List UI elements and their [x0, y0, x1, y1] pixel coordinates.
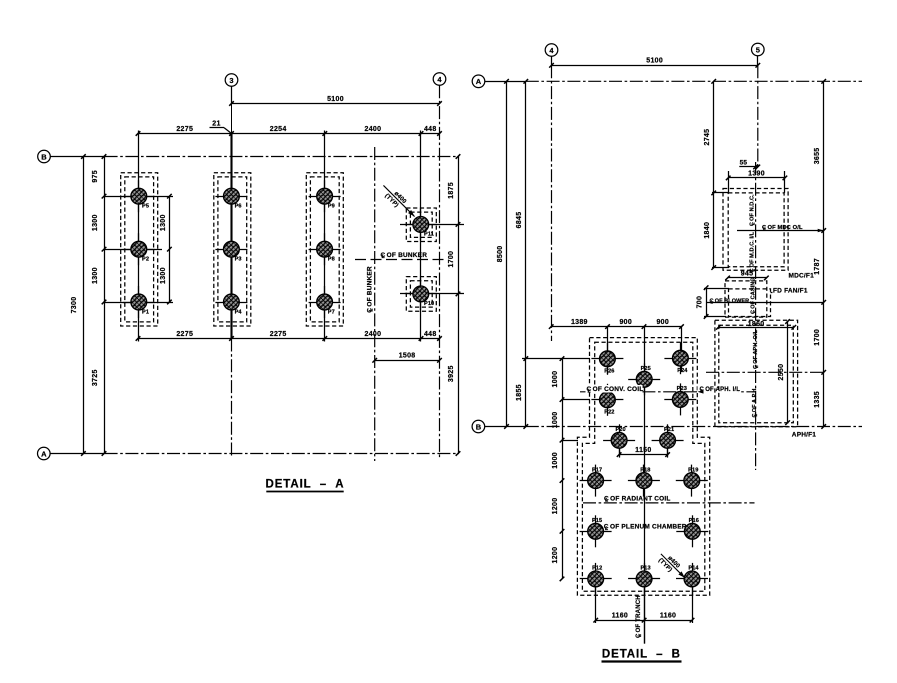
grid line A (detail B): [485, 81, 526, 83]
label CL OF CASING (vertical): [751, 277, 757, 314]
FD fan pedestal rect 2: [729, 289, 771, 317]
svg-text:1700: 1700: [448, 251, 455, 268]
pile P20: [603, 440, 635, 442]
svg-text:P22: P22: [604, 410, 614, 416]
dim chain 6845/1855: [525, 81, 527, 426]
APH pedestal outer: [715, 320, 798, 427]
svg-text:P2: P2: [142, 257, 149, 263]
svg-text:5100: 5100: [646, 58, 663, 65]
svg-text:P19: P19: [688, 467, 698, 473]
pile cap P10 outer: [406, 277, 436, 312]
svg-text:900: 900: [656, 319, 669, 326]
row line P26 extension: [522, 358, 590, 360]
dim 2550 (APH height): [787, 322, 789, 423]
svg-text:OF APH. O/L: OF APH. O/L: [753, 329, 759, 363]
svg-text:P11: P11: [424, 232, 434, 238]
column line P26: [607, 327, 609, 374]
pile P7: [309, 302, 341, 304]
svg-text:3725: 3725: [92, 369, 99, 386]
svg-text:OF A.P.H.: OF A.P.H.: [752, 387, 758, 413]
svg-text:2275: 2275: [176, 331, 193, 338]
column line 3 (detail A): [324, 131, 326, 342]
svg-text:P14: P14: [688, 566, 699, 572]
svg-text:2400: 2400: [365, 126, 382, 133]
dim chain 3655/1787/1700/1335 (far right): [823, 81, 825, 426]
grid line 3: [231, 86, 233, 104]
svg-text:OF CASING: OF CASING: [751, 277, 757, 308]
svg-text:OF BUNKER: OF BUNKER: [387, 252, 428, 259]
pile P15: [580, 531, 612, 533]
grid line 5 (detail B): [757, 56, 759, 66]
grid line 4 (detail A): [439, 85, 441, 459]
svg-text:OF MDC O/L: OF MDC O/L: [768, 225, 803, 231]
svg-text:P3: P3: [235, 257, 242, 263]
svg-text:P12: P12: [592, 566, 602, 572]
svg-text:8500: 8500: [497, 246, 504, 263]
row line P20 extension: [562, 440, 578, 442]
label FD FAN/F1: [771, 292, 773, 294]
svg-text:55: 55: [740, 159, 748, 166]
svg-text:1160: 1160: [612, 613, 628, 620]
note dia400 TYP (detail B): [655, 550, 689, 584]
svg-text:P5: P5: [142, 204, 149, 210]
grid line A (detail A): [50, 453, 105, 455]
FD fan pedestal rect 1: [725, 281, 767, 317]
section line 21 (thick): [230, 134, 232, 339]
svg-text:B: B: [41, 152, 47, 161]
svg-text:1000: 1000: [552, 412, 559, 429]
pile P17: [580, 480, 612, 482]
svg-text:P10: P10: [424, 301, 434, 307]
label CL OF N.D.C. (vertical): [750, 194, 756, 226]
pile P12: [580, 578, 612, 580]
dim 5100 (detail A top): [232, 103, 440, 105]
svg-text:7300: 7300: [71, 297, 78, 314]
grid bubble A (detail A): [38, 447, 51, 460]
MDC pedestal inner: [728, 193, 784, 267]
svg-text:P15: P15: [592, 518, 602, 524]
svg-text:DETAIL – B: DETAIL – B: [602, 649, 681, 661]
svg-text:5100: 5100: [327, 96, 344, 103]
svg-text:P21: P21: [664, 427, 674, 433]
column line 1 (detail A): [138, 131, 140, 342]
svg-text:P17: P17: [592, 467, 602, 473]
dim 5100 (detail B): [552, 65, 758, 67]
svg-text:A: A: [41, 449, 47, 458]
svg-text:P8: P8: [328, 257, 335, 263]
dim chain 975/1300/1300/3725: [104, 157, 106, 454]
grid bubble 5 (detail B): [752, 43, 765, 56]
dim chain 8500: [506, 81, 508, 426]
svg-text:1390: 1390: [748, 170, 765, 177]
svg-text:1508: 1508: [399, 353, 416, 360]
svg-text:OF M.D.C. I/L: OF M.D.C. I/L: [750, 231, 756, 267]
label CL OF APH. O/L (vertical): [753, 329, 759, 369]
bunker centerline (vertical): [374, 147, 376, 461]
row line 196: [104, 196, 173, 198]
row line P10: [400, 293, 464, 295]
svg-text:A: A: [476, 77, 482, 86]
grid bubble 4 (detail A): [433, 73, 446, 86]
svg-text:1335: 1335: [814, 391, 821, 408]
dim row 2275/2254/2400/448 (top): [138, 133, 440, 135]
svg-text:1860: 1860: [748, 321, 765, 328]
svg-text:2745: 2745: [704, 129, 711, 146]
pile P9: [309, 196, 341, 198]
svg-text:OF BUNKER: OF BUNKER: [367, 266, 374, 307]
svg-text:1855: 1855: [516, 384, 523, 401]
svg-text:P1: P1: [142, 309, 149, 315]
row line P11: [400, 224, 464, 226]
svg-text:B: B: [476, 422, 482, 431]
equipment centerline (MDC/APH): [755, 162, 757, 470]
dim chain 1875/1700/3925 (right): [458, 157, 460, 454]
column line P10/P11: [420, 131, 422, 342]
pile P11: [405, 224, 437, 226]
pile P18: [628, 480, 660, 482]
pile P3: [215, 249, 247, 251]
pile cap P11 inner: [410, 212, 432, 237]
svg-text:OF APH. I/L: OF APH. I/L: [705, 387, 740, 393]
note dia400 TYP (detail A): [378, 181, 419, 222]
svg-text:1150: 1150: [635, 447, 651, 454]
dim 1150 (P20-P21): [619, 448, 621, 458]
pile cap P11 outer: [406, 208, 436, 242]
grid bubble B (detail B): [472, 420, 485, 433]
pile P24: [664, 358, 696, 360]
svg-text:1300: 1300: [160, 214, 167, 231]
pile P5: [123, 196, 155, 198]
row line 302: [104, 302, 173, 304]
pile P19: [676, 480, 708, 482]
svg-text:P4: P4: [235, 309, 243, 315]
svg-text:1300: 1300: [160, 267, 167, 284]
pile P10: [405, 293, 437, 295]
pile P25: [628, 379, 660, 381]
svg-text:P7: P7: [328, 309, 335, 315]
svg-text:700: 700: [696, 296, 703, 309]
svg-text:APH/F1: APH/F1: [792, 432, 817, 439]
column line P24: [681, 327, 683, 372]
dim 1508: [375, 360, 440, 362]
pile cap A2 outer: [214, 173, 251, 326]
svg-text:P13: P13: [640, 566, 650, 572]
pile P1: [123, 302, 155, 304]
dim chain 7300 (far left): [83, 157, 85, 454]
dim 1860 (APH width): [718, 327, 793, 329]
pile P23: [664, 399, 696, 401]
conv coil cap inner outline: [582, 342, 704, 591]
svg-text:MDC/F1: MDC/F1: [789, 273, 815, 280]
svg-text:P24: P24: [677, 368, 688, 374]
dim chain 1300/1300 (inner): [169, 196, 171, 302]
pile cap A2 inner: [218, 177, 247, 322]
svg-text:1000: 1000: [552, 371, 559, 388]
MDC outlet level line: [737, 230, 824, 232]
bunker level line: [355, 259, 444, 261]
svg-text:2400: 2400: [365, 331, 382, 338]
row line P22 extension: [562, 399, 590, 401]
svg-text:P26: P26: [604, 369, 614, 375]
grid line B (detail A): [50, 156, 104, 158]
dim chain 1000x3/1200x2 (detail B left): [562, 359, 564, 579]
dim chain 2745/1840 (MDC left): [712, 192, 729, 194]
grid bubble A (detail B): [472, 75, 485, 88]
svg-text:P9: P9: [328, 204, 335, 210]
column line P25/P18/P13 (center): [644, 327, 646, 644]
pile cap A3 inner: [310, 177, 339, 322]
svg-text:975: 975: [92, 170, 99, 183]
svg-text:2275: 2275: [176, 126, 193, 133]
svg-text:1300: 1300: [92, 267, 99, 284]
svg-text:OF CONV. COIL: OF CONV. COIL: [593, 386, 644, 393]
svg-text:3925: 3925: [448, 365, 455, 382]
svg-text:448: 448: [424, 126, 437, 133]
pile cap P10 inner: [410, 281, 432, 307]
label CL OF M.D.C. I/L (vertical): [750, 231, 756, 272]
svg-text:945: 945: [741, 270, 754, 277]
svg-text:OF RADIANT COIL: OF RADIANT COIL: [610, 495, 670, 502]
pile cap A3 outer: [306, 173, 343, 326]
svg-text:P25: P25: [641, 366, 651, 372]
pile cap A1 outer: [121, 173, 158, 326]
APH outlet level line: [706, 371, 824, 373]
grid line B (detail B): [485, 426, 526, 428]
svg-text:1000: 1000: [552, 452, 559, 469]
APH pedestal inner: [719, 325, 794, 422]
grid line 4 (detail B): [551, 56, 553, 65]
svg-text:1160: 1160: [660, 613, 676, 620]
pile cap A1 inner: [125, 177, 154, 322]
svg-text:OF N.D.C.: OF N.D.C.: [750, 194, 756, 221]
svg-text:1787: 1787: [814, 258, 821, 275]
dim row 1389/900/900 (detail B top): [551, 326, 681, 328]
pile P13: [628, 578, 660, 580]
grid bubble 3: [225, 74, 238, 87]
pile P26: [591, 358, 623, 360]
label CL OF TRANCH (vertical): [636, 595, 643, 638]
blower centerline: [707, 302, 824, 304]
svg-text:2254: 2254: [270, 126, 287, 133]
svg-text:OF PLENUM CHAMBER: OF PLENUM CHAMBER: [610, 524, 687, 531]
dim row 1160/1160 (detail B bottom): [595, 587, 597, 623]
svg-text:1389: 1389: [571, 319, 588, 326]
label CL OF APH. I/L: [698, 390, 704, 394]
conv coil / APH inlet centerline: [580, 391, 756, 393]
svg-text:900: 900: [619, 319, 632, 326]
svg-text:21: 21: [212, 121, 220, 128]
svg-text:448: 448: [424, 331, 437, 338]
pile P6: [215, 196, 247, 198]
pile P21: [652, 440, 684, 442]
pile P8: [309, 249, 341, 251]
radiant coil centerline: [583, 502, 755, 504]
label CL OF BUNKER (vertical): [367, 266, 375, 313]
label CL OF A.P.H. (vertical): [752, 387, 758, 418]
dim row bottom 2275/2275/2400/448: [138, 338, 440, 340]
pile P14: [676, 578, 708, 580]
svg-text:P6: P6: [235, 204, 242, 210]
svg-text:5: 5: [756, 45, 760, 54]
svg-text:1840: 1840: [704, 222, 711, 239]
svg-text:P18: P18: [640, 467, 650, 473]
row line 249: [104, 249, 162, 251]
svg-text:OF TRANCH: OF TRANCH: [636, 595, 642, 632]
svg-text:1200: 1200: [552, 498, 559, 515]
grid bubble B (detail A): [38, 150, 51, 163]
grid bubble 4 (detail B): [545, 44, 558, 57]
svg-text:1875: 1875: [448, 182, 455, 199]
svg-text:P16: P16: [689, 518, 699, 524]
pile P16: [676, 531, 708, 533]
dim 945 (FD fan): [728, 277, 767, 279]
svg-text:3: 3: [229, 76, 233, 85]
svg-text:1300: 1300: [92, 214, 99, 231]
conv coil cap outer outline: [577, 338, 709, 596]
svg-text:1700: 1700: [814, 329, 821, 346]
dim 55 (MDC offset): [739, 166, 758, 168]
svg-text:3655: 3655: [814, 148, 821, 165]
svg-text:DETAIL – A: DETAIL – A: [266, 479, 345, 491]
pile P2: [123, 249, 155, 251]
svg-text:P20: P20: [615, 427, 625, 433]
svg-text:2275: 2275: [270, 331, 287, 338]
dim 1390 (MDC width): [728, 171, 730, 193]
svg-text:1200: 1200: [552, 547, 559, 564]
svg-text:FD FAN/F1: FD FAN/F1: [773, 288, 808, 295]
dim 700 (FD fan): [704, 288, 729, 290]
pile P4: [215, 302, 247, 304]
svg-text:6845: 6845: [516, 212, 523, 229]
MDC pedestal outer: [723, 189, 788, 271]
pile P22: [591, 399, 623, 401]
svg-text:OF BLOWER: OF BLOWER: [715, 298, 750, 304]
